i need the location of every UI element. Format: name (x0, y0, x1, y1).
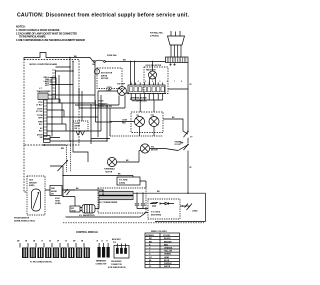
svg-text:BROWN: BROWN (164, 241, 172, 243)
wire color table text (146, 235, 173, 268)
svg-text:W: W (149, 266, 151, 268)
humidity sensor leads (45, 189, 75, 191)
mid vertical wires (79, 88, 125, 144)
junction dot (69, 140, 70, 141)
wire vertical drop A (69, 58, 71, 142)
wire color table (145, 233, 180, 268)
svg-text:CONNECTOR: CONNECTOR (96, 263, 108, 265)
gas sensor label (29, 179, 37, 188)
fan/turntable dashed box (131, 112, 163, 133)
L.T. transformer primary winding (38, 93, 48, 100)
svg-text:MEMBRANE: MEMBRANE (96, 259, 107, 262)
conv fan label (122, 120, 128, 125)
svg-text:(SOME MODELS ONLY): (SOME MODELS ONLY) (14, 221, 35, 223)
thermal switch blade (184, 145, 189, 151)
long return wire (133, 193, 206, 221)
junction dots feed (130, 61, 135, 62)
svg-text:H.V. FUSE: H.V. FUSE (119, 180, 128, 182)
turntable motor label (104, 168, 116, 174)
box exit wire (163, 119, 188, 134)
power cord wires (171, 45, 181, 57)
strip lower marks (170, 64, 171, 65)
terminal board collector wire (131, 99, 163, 101)
wire magnetron lead (63, 197, 75, 207)
CN1 row labels (36, 102, 43, 139)
svg-text:BK/W BK R: BK/W BK R (112, 239, 121, 241)
svg-text:(3 PRONG): (3 PRONG) (150, 35, 159, 37)
membrane leader ticks (99, 243, 108, 247)
junction dots (62, 175, 63, 197)
svg-text:H.V. DIODE: H.V. DIODE (151, 212, 161, 214)
svg-text:LT RLY: LT RLY (36, 104, 43, 106)
svg-text:TRANSFORMER: TRANSFORMER (37, 90, 52, 93)
power cord label (150, 32, 164, 38)
winding feed (102, 190, 104, 196)
connector CN2 rungs (52, 70, 56, 99)
fan motor M3 (135, 117, 145, 127)
oven lamp L1 (118, 87, 127, 96)
terminal board pin ticks (131, 83, 163, 86)
svg-text:ORANGE: ORANGE (164, 247, 173, 250)
junction dot main wire (69, 57, 70, 58)
svg-text:SENSE: SENSE (51, 191, 58, 193)
svg-text:HOOD FAN MOTOR: HOOD FAN MOTOR (146, 64, 162, 67)
grounding leader ticks (117, 244, 125, 248)
svg-text:SYMBOL: SYMBOL (146, 235, 155, 237)
junction dots (102, 190, 103, 196)
hatch marks (65, 189, 70, 195)
svg-text:CONNECTOR: CONNECTOR (111, 264, 123, 266)
svg-text:FOR WALL REC.: FOR WALL REC. (150, 32, 164, 35)
junction dots cap (136, 193, 143, 194)
svg-text:W: W (190, 167, 192, 169)
svg-text:(HMD): (HMD) (29, 185, 35, 187)
svg-text:LT CLK: LT CLK (36, 111, 43, 113)
grounding connector labels (112, 239, 121, 244)
wire branches right (47, 78, 101, 142)
line terminal strip TB1 (166, 57, 189, 63)
keypad connector block P1 (22, 248, 90, 259)
HV transformer secondary winding (99, 191, 133, 199)
humidity sensor box (50, 186, 62, 196)
svg-text:PURPLE: PURPLE (164, 263, 172, 265)
svg-text:RED: RED (164, 244, 169, 246)
TCO label (175, 141, 183, 147)
TCO junction dot (187, 131, 189, 133)
power plug P1 (168, 36, 185, 45)
magnetron MG1 (82, 205, 95, 214)
steam sensor label (14, 217, 35, 223)
hood box to bus wire (168, 88, 188, 90)
HV transformer dashed box (98, 188, 146, 213)
wire main line top (24, 53, 93, 62)
thermistor lower lead (62, 169, 64, 197)
hood fan inner leads (150, 78, 156, 85)
connector CN2 rail (55, 70, 57, 99)
svg-text:CUTOUT: CUTOUT (175, 144, 182, 146)
HV capacitor C1 (135, 193, 148, 208)
svg-text:GRAY: GRAY (164, 256, 170, 259)
oven lamp label (107, 87, 113, 92)
upper branch wires (56, 67, 74, 71)
svg-text:MOTOR): MOTOR) (101, 78, 109, 80)
HV diode dashed box (148, 199, 180, 219)
junction dot (152, 61, 153, 62)
wire fuse drop (94, 62, 96, 106)
svg-text:MTR: MTR (38, 117, 43, 119)
dashed cavity line (63, 222, 204, 224)
motor box leads (110, 122, 154, 137)
wire to HV fuse (63, 176, 133, 178)
svg-text:(FOR SENSOR MDLS): (FOR SENSOR MDLS) (108, 267, 126, 269)
svg-text:PC PIN CONNECTORS (P6): PC PIN CONNECTORS (P6) (30, 261, 52, 263)
svg-text:CAUTION: Disconnect from elect: CAUTION: Disconnect from electrical supp… (17, 13, 190, 19)
bus vertical C (59, 75, 62, 124)
svg-text:GROUNDING: GROUNDING (111, 261, 122, 263)
chassis ground (185, 204, 193, 211)
keypad connector labels (17, 239, 84, 242)
svg-text:YELLOW: YELLOW (164, 251, 172, 253)
junction dot main wire 2 (72, 61, 73, 62)
svg-text:(GND): (GND) (193, 211, 198, 213)
gas sensor element (32, 189, 41, 211)
svg-text:OVEN: OVEN (107, 87, 113, 89)
HV diode D1 (150, 202, 174, 206)
svg-text:H.V. TRANSFORMER: H.V. TRANSFORMER (100, 201, 119, 204)
HV diode label (151, 212, 161, 217)
diode output wire (180, 205, 190, 207)
dashed lead (110, 135, 163, 137)
membrane connector bars (98, 247, 110, 258)
terminal board pin wires (131, 94, 163, 113)
turntable motor M4 (149, 117, 159, 127)
micro computer board dashed box (24, 60, 79, 146)
svg-text:GREEN: GREEN (164, 254, 171, 256)
wire BK lower (64, 189, 103, 191)
strip feed wires (131, 62, 135, 86)
magnetron leads (80, 200, 99, 211)
pin label stack (43, 77, 50, 87)
junction dots on bus (51, 84, 52, 132)
wire bus vertical (51, 77, 53, 137)
svg-text:BLUE: BLUE (164, 260, 170, 262)
magnetron tstat box (70, 206, 80, 212)
arrow into board (42, 144, 66, 146)
power plug prongs (171, 31, 180, 36)
L.T. transformer label (37, 88, 52, 93)
terminal board strip (128, 85, 165, 94)
door sense dashed box (73, 121, 88, 135)
turntable motor M6 (107, 157, 116, 166)
membrane connector labels (97, 240, 109, 242)
grounding connector (114, 246, 129, 259)
svg-text:P15: P15 (113, 242, 116, 244)
svg-text:(RECTIFIER): (RECTIFIER) (151, 215, 161, 217)
HV fuse box (117, 177, 140, 185)
svg-text:SW: SW (39, 137, 42, 139)
right bus wire (187, 63, 189, 132)
motor wires (117, 145, 188, 162)
svg-text:3. ONLY CERTAIN MODELS USE THE: 3. ONLY CERTAIN MODELS USE THE MODULAR H… (16, 39, 85, 42)
grounding caption (108, 261, 126, 269)
mid horizontal wires (70, 91, 125, 141)
keypad connector stripes (24, 248, 88, 257)
keypad connector leader ticks (20, 243, 84, 248)
hood fan motor lead (152, 62, 154, 72)
svg-text:(0.85A): (0.85A) (119, 182, 125, 185)
svg-text:W: W (190, 84, 192, 86)
hood fan motor dashed box (144, 67, 168, 94)
svg-text:SENSE: SENSE (75, 126, 80, 128)
HV fuse lead (140, 181, 146, 188)
junction dots mid (81, 104, 107, 141)
board dashed extension (24, 145, 27, 192)
membrane caption (96, 259, 108, 265)
bus bottom dot (187, 193, 188, 194)
wire main line to terminal strip (106, 61, 166, 63)
wire pin stack to bus (48, 78, 56, 100)
svg-text:(DRIVE: (DRIVE (101, 75, 108, 77)
connector CN1 ladder (44, 100, 48, 137)
svg-text:MOTOR: MOTOR (151, 149, 158, 151)
svg-text:SW: SW (51, 194, 54, 196)
svg-text:TURNTABLE: TURNTABLE (104, 168, 116, 171)
fan motor M5 (140, 144, 149, 153)
TCO switch blade (184, 132, 189, 138)
svg-text:ANT. MOTOR: ANT. MOTOR (101, 72, 113, 75)
bus segment 2 (187, 138, 189, 144)
svg-text:MOTOR: MOTOR (106, 171, 113, 173)
thermistor TH1 (50, 160, 68, 171)
antenna motor M1 (94, 69, 99, 74)
terminal board label (131, 97, 148, 103)
svg-text:TOP LMP: TOP LMP (117, 83, 126, 85)
gas sensor dashed box (27, 176, 45, 215)
magnetron return wire (66, 213, 149, 218)
wire vertical drop B (73, 62, 88, 163)
svg-text:CONTROL MODULE: CONTROL MODULE (76, 232, 98, 234)
fuse F1 20A (93, 60, 105, 62)
fan motor label (151, 147, 158, 152)
antenna motor dashed box (97, 68, 122, 89)
hood tstat label (55, 198, 61, 205)
door interlock label (98, 101, 112, 109)
svg-text:BLACK: BLACK (164, 237, 171, 240)
connector boxes row (44, 136, 51, 143)
antenna motor label (101, 72, 113, 81)
svg-text:H.V. MAGNETRON: H.V. MAGNETRON (79, 214, 95, 217)
svg-text:MICRO COMPUTER BOARD: MICRO COMPUTER BOARD (30, 63, 58, 66)
svg-text:(SOME): (SOME) (55, 203, 61, 205)
svg-text:STEAM SENSOR: STEAM SENSOR (14, 217, 30, 220)
svg-text:WHITE: WHITE (164, 266, 171, 268)
svg-text:MGT: MGT (71, 208, 74, 210)
svg-text:FUSE 20A: FUSE 20A (107, 54, 117, 57)
hood fan motor M2 (149, 71, 157, 79)
dashed sensor wires (66, 145, 68, 172)
upper branch dots (69, 66, 73, 71)
svg-text:COLOR: COLOR (163, 235, 170, 237)
diode output junction (182, 205, 184, 207)
right bus lower (187, 151, 189, 194)
right bus junction (187, 144, 189, 146)
svg-text:SENSOR: SENSOR (29, 182, 37, 184)
